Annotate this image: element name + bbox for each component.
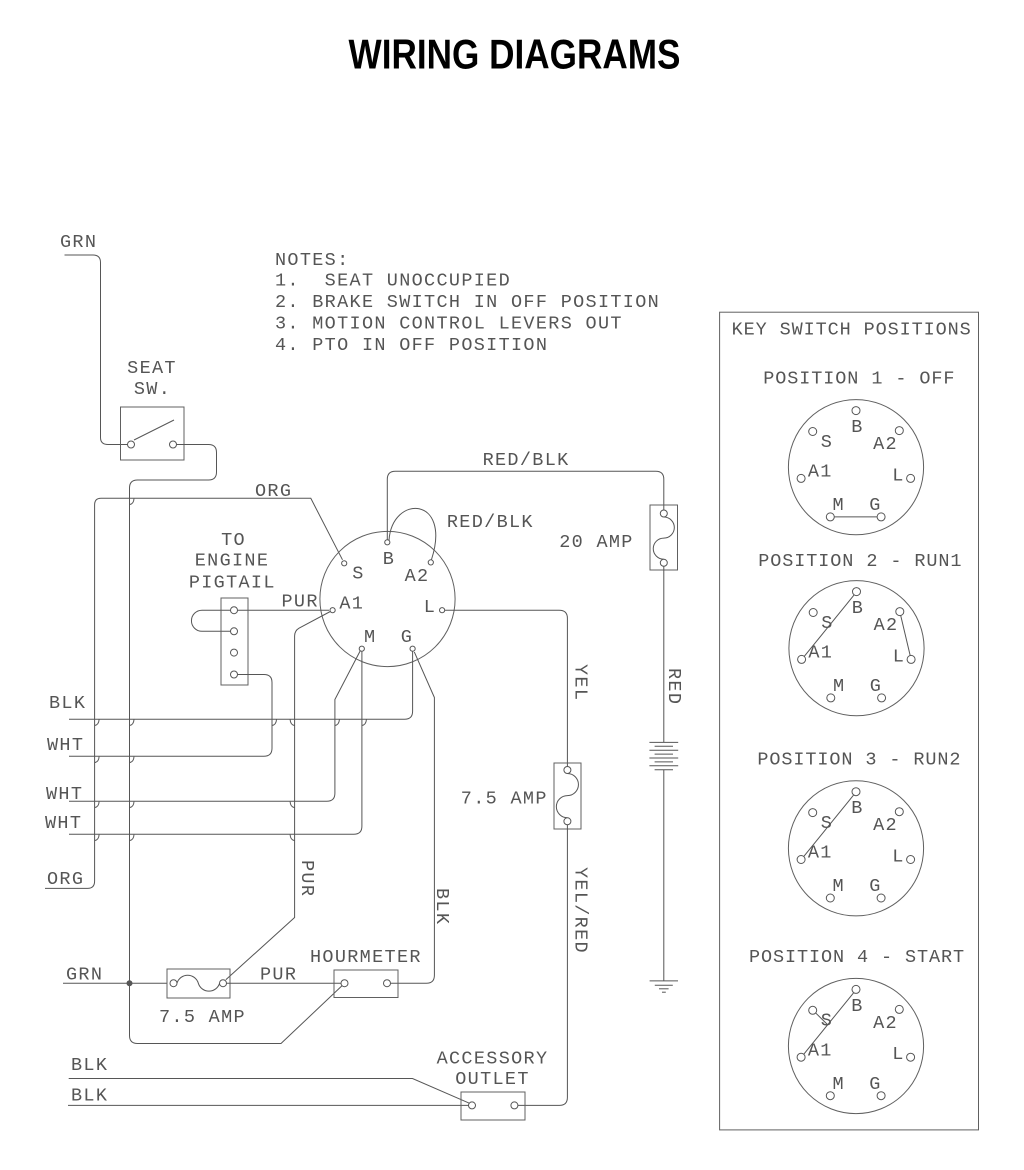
svg-text:POSITION 1 - OFF: POSITION 1 - OFF [763, 368, 955, 389]
wire BLK to accessory outlet (straight) [68, 1104, 469, 1106]
position 4 contact B-A1 [804, 993, 854, 1055]
wire jumper arc B to A2 [389, 508, 436, 559]
svg-text:ORG: ORG [255, 481, 292, 502]
position 3 key switch circle [788, 781, 923, 916]
key switch positions panel frame [720, 312, 979, 1130]
key switch U1 labels [339, 549, 436, 648]
position 4 contact S branch [816, 1013, 827, 1024]
svg-text:7.5 AMP: 7.5 AMP [461, 789, 548, 810]
wire hop marks [95, 499, 367, 841]
accessory outlet J2 [461, 1092, 525, 1120]
wire RED/BLK: B terminal to 20 AMP fuse [387, 471, 664, 539]
svg-text:7.5 AMP: 7.5 AMP [159, 1007, 246, 1028]
wire GRN bottom stub [63, 982, 167, 984]
wire seat switch return (PUR) down to GRN junction [130, 445, 217, 984]
svg-text:4. PTO IN OFF POSITION: 4. PTO IN OFF POSITION [275, 335, 548, 356]
svg-text:YEL: YEL [570, 664, 591, 701]
fuse F2 7.5 AMP (middle) [554, 763, 581, 829]
wire fuse to hourmeter [227, 982, 342, 984]
svg-text:POSITION 2 - RUN1: POSITION 2 - RUN1 [758, 551, 962, 572]
wire L terminal YEL to 7.5 AMP fuse [445, 610, 568, 766]
svg-text:GRN: GRN [66, 965, 103, 986]
fuse F1 20 AMP [650, 505, 678, 570]
svg-text:POSITION 4 - START: POSITION 4 - START [749, 947, 965, 968]
svg-text:GRN: GRN [60, 232, 97, 253]
svg-text:BLK: BLK [49, 693, 86, 714]
wire YEL/RED fuse to accessory outlet [518, 825, 567, 1106]
wire G terminal BLK down to hourmeter [391, 652, 435, 983]
svg-text:PIGTAIL: PIGTAIL [189, 572, 276, 593]
engine pigtail connector J1 [221, 598, 248, 685]
svg-text:YEL/RED: YEL/RED [570, 867, 591, 954]
position 2 key switch circle [789, 581, 924, 716]
wire GRN junction detour to hourmeter [130, 983, 343, 1043]
wire RED: fuse to battery to ground [663, 566, 665, 981]
notes text block [275, 250, 660, 356]
hourmeter M1 [334, 970, 398, 998]
junction GRN [127, 980, 133, 986]
title [349, 31, 681, 78]
svg-text:OUTLET: OUTLET [455, 1069, 530, 1090]
wire A1 to engine pigtail pin 1 [238, 609, 329, 611]
position 2 contact B-A1 [804, 595, 854, 657]
svg-text:ENGINE: ENGINE [195, 551, 270, 572]
svg-text:SEAT: SEAT [127, 358, 177, 379]
svg-text:1. SEAT UNOCCUPIED: 1. SEAT UNOCCUPIED [275, 270, 511, 291]
wire A1 PUR down to 7.5 AMP fuse [226, 612, 330, 980]
ground [650, 981, 678, 992]
svg-text:20 AMP: 20 AMP [559, 532, 634, 553]
svg-text:RED/BLK: RED/BLK [447, 512, 534, 533]
svg-text:WIRING DIAGRAMS: WIRING DIAGRAMS [349, 31, 681, 78]
svg-text:PUR: PUR [282, 592, 319, 613]
wire ORG: S terminal to left bus, down to ORG stub [45, 498, 343, 888]
svg-text:HOURMETER: HOURMETER [310, 947, 422, 968]
svg-text:2. BRAKE SWITCH IN OFF POSITIO: 2. BRAKE SWITCH IN OFF POSITION [275, 292, 660, 313]
svg-text:TO: TO [221, 530, 246, 551]
wire WHT3 bus to M terminal (vertical) [69, 652, 362, 835]
svg-text:KEY SWITCH POSITIONS: KEY SWITCH POSITIONS [732, 319, 972, 340]
svg-text:WHT: WHT [45, 813, 82, 834]
svg-text:BLK: BLK [71, 1086, 108, 1107]
wire BLK bus to G terminal [69, 652, 413, 720]
svg-text:BLK: BLK [431, 888, 452, 925]
svg-text:ORG: ORG [47, 869, 84, 890]
svg-text:ACCESSORY: ACCESSORY [437, 1049, 549, 1070]
position 1 key switch circle [788, 400, 923, 535]
position 4 key switch circle [788, 978, 923, 1113]
svg-text:3. MOTION CONTROL LEVERS OUT: 3. MOTION CONTROL LEVERS OUT [275, 313, 623, 334]
wire GRN to seat switch [65, 255, 128, 445]
position 3 contact B-A1 [804, 795, 854, 857]
fuse F3 7.5 AMP (bottom left) [167, 969, 230, 998]
wire BLK to accessory outlet (diagonal) [69, 1079, 470, 1104]
svg-text:POSITION 3 - RUN2: POSITION 3 - RUN2 [757, 750, 961, 771]
wire pigtail pin 4 to WHT bus [69, 675, 272, 757]
position 2 contact A2-L [901, 616, 911, 656]
svg-text:BLK: BLK [71, 1055, 108, 1076]
wire WHT2 bus to M terminal (diagonal) [69, 651, 360, 801]
svg-text:SW.: SW. [134, 379, 171, 400]
position 1 contact M-G [834, 516, 877, 518]
svg-text:PUR: PUR [260, 965, 297, 986]
battery BT1 [649, 742, 678, 769]
svg-text:WHT: WHT [46, 784, 83, 805]
svg-text:NOTES:: NOTES: [275, 250, 350, 271]
wire pigtail jumper loop pins 1-2 [191, 610, 230, 631]
svg-text:RED/BLK: RED/BLK [483, 450, 570, 471]
seat switch SW1 [121, 407, 185, 460]
key switch U1 [320, 531, 455, 666]
svg-text:PUR: PUR [296, 860, 317, 897]
svg-text:WHT: WHT [47, 735, 84, 756]
key switch U1 pins [330, 540, 445, 652]
svg-text:RED: RED [663, 668, 684, 705]
